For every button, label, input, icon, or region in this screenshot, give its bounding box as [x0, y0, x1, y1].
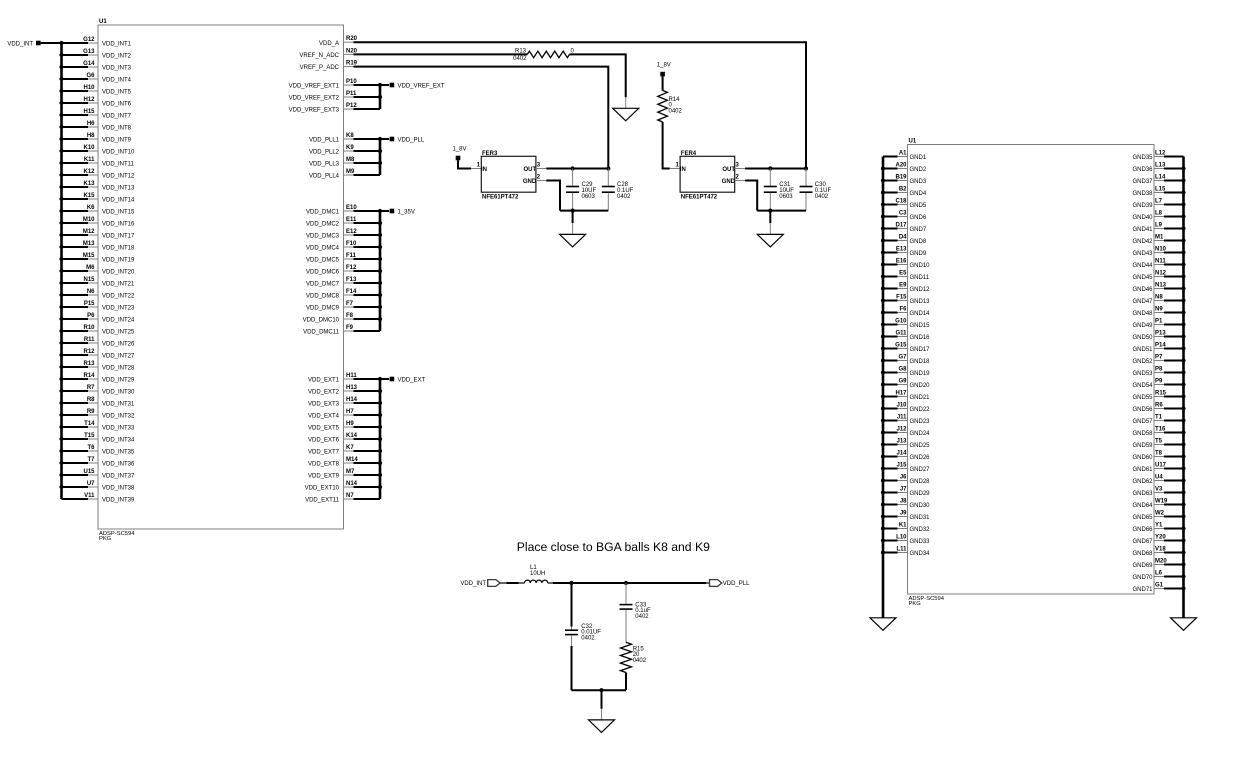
svg-text:VREF_P_ADC: VREF_P_ADC: [300, 65, 340, 71]
svg-text:VDD_INT4: VDD_INT4: [102, 78, 132, 84]
svg-text:P15: P15: [84, 301, 95, 307]
pin GND47 (N8) with wire and junction: [1132, 295, 1185, 306]
svg-text:U1: U1: [99, 19, 107, 25]
svg-text:NFE61PT472: NFE61PT472: [482, 195, 519, 201]
svg-text:VDD_INT17: VDD_INT17: [102, 234, 135, 240]
svg-text:M6: M6: [86, 265, 95, 271]
pin VDD_VREF_EXT3 (P12): [289, 103, 380, 114]
svg-text:GND33: GND33: [910, 539, 931, 545]
pin GND26 (J14) with wire and junction: [881, 451, 930, 462]
svg-text:VDD_INT13: VDD_INT13: [102, 186, 135, 192]
svg-text:K1: K1: [899, 523, 907, 529]
svg-text:GND25: GND25: [910, 443, 931, 449]
pin GND43 (N10) with wire and junction: [1132, 247, 1185, 258]
svg-text:VDD_INT35: VDD_INT35: [102, 450, 135, 456]
wire FER4 ground rail: [757, 209, 806, 213]
svg-text:W2: W2: [1155, 511, 1165, 517]
svg-text:H10: H10: [83, 85, 95, 91]
pin VDD_INT38 (U7) with wire and junction: [59, 481, 135, 492]
pin GND44 (N11) with wire and junction: [1132, 259, 1185, 270]
svg-text:H17: H17: [895, 391, 907, 397]
svg-text:OUT: OUT: [524, 167, 537, 173]
net VDD_INT flag: [7, 41, 40, 48]
svg-text:J13: J13: [896, 439, 907, 445]
svg-text:P12: P12: [346, 103, 357, 109]
svg-text:VDD_INT8: VDD_INT8: [102, 126, 132, 132]
svg-text:F12: F12: [346, 265, 357, 271]
svg-text:H15: H15: [83, 109, 95, 115]
svg-text:GND8: GND8: [910, 239, 927, 245]
svg-text:FER4: FER4: [681, 151, 697, 157]
svg-text:VDD_INT25: VDD_INT25: [102, 330, 135, 336]
svg-text:GND71: GND71: [1132, 587, 1153, 593]
pin VDD_PLL2 (K9): [309, 145, 380, 156]
svg-text:GND47: GND47: [1132, 299, 1153, 305]
svg-text:VDD_INT10: VDD_INT10: [102, 150, 135, 156]
svg-text:0603: 0603: [582, 194, 596, 200]
svg-text:1_8V: 1_8V: [657, 63, 671, 69]
pin GND59 (T5) with wire and junction: [1132, 439, 1185, 450]
pin VDD_PLL1 (K8): [309, 133, 380, 144]
svg-text:VDD_INT12: VDD_INT12: [102, 174, 135, 180]
svg-text:GND24: GND24: [910, 431, 931, 437]
ferrite bead FER3 (NFE61PT472): [477, 151, 541, 201]
svg-text:VDD_INT26: VDD_INT26: [102, 342, 135, 348]
wire FER4 OUT node: [735, 166, 808, 170]
svg-text:J15: J15: [896, 463, 907, 469]
svg-text:VDD_INT39: VDD_INT39: [102, 498, 135, 504]
pin VDD_INT10 (K10) with wire and junction: [59, 145, 135, 156]
svg-text:GND52: GND52: [1132, 359, 1153, 365]
pin VDD_INT30 (R7) with wire and junction: [59, 385, 135, 396]
svg-text:R8: R8: [87, 397, 95, 403]
svg-text:VDD_INT33: VDD_INT33: [102, 426, 135, 432]
svg-text:R11: R11: [84, 337, 95, 343]
svg-text:N6: N6: [87, 289, 95, 295]
pin GND29 (J7) with wire and junction: [881, 487, 930, 498]
svg-text:VDD_INT19: VDD_INT19: [102, 258, 135, 264]
svg-text:VDD_DMC2: VDD_DMC2: [306, 222, 340, 228]
svg-text:K14: K14: [346, 433, 358, 439]
svg-text:VDD_INT: VDD_INT: [460, 581, 486, 587]
pin VDD_INT18 (M13) with wire and junction: [59, 241, 135, 252]
wire ground rail (bottom filter): [572, 688, 627, 692]
svg-text:GND41: GND41: [1132, 227, 1153, 233]
svg-text:GND11: GND11: [910, 275, 930, 281]
svg-text:GND65: GND65: [1132, 515, 1153, 521]
svg-text:J6: J6: [900, 475, 907, 481]
svg-text:G10: G10: [895, 319, 907, 325]
svg-text:GND20: GND20: [910, 383, 931, 389]
svg-text:OUT: OUT: [722, 167, 735, 173]
pin VDD_EXT10 (N14): [305, 481, 380, 492]
pin VDD_INT34 (T15) with wire and junction: [59, 433, 135, 444]
pin GND68 (V18) with wire and junction: [1132, 547, 1185, 558]
svg-text:VDD_INT6: VDD_INT6: [102, 102, 132, 108]
svg-text:R13: R13: [83, 361, 95, 367]
svg-text:GND2: GND2: [910, 167, 927, 173]
pin VDD_INT20 (M6) with wire and junction: [59, 265, 135, 276]
bus to net 1_35V: [378, 209, 382, 331]
svg-text:T7: T7: [87, 457, 95, 463]
svg-text:J14: J14: [896, 451, 907, 457]
pin VDD_INT5 (H10) with wire and junction: [59, 85, 131, 96]
svg-text:GND31: GND31: [910, 515, 931, 521]
svg-text:L11: L11: [896, 547, 907, 553]
svg-text:T14: T14: [84, 421, 95, 427]
svg-text:N11: N11: [1155, 259, 1166, 265]
pin GND66 (Y1) with wire and junction: [1132, 523, 1185, 534]
wire 1_8V to FER3 IN: [458, 160, 481, 168]
svg-text:VDD_VREF_EXT: VDD_VREF_EXT: [398, 83, 445, 89]
pin GND23 (J11) with wire and junction: [881, 415, 930, 426]
svg-text:GND4: GND4: [910, 191, 927, 197]
svg-text:J7: J7: [900, 487, 907, 493]
ground (bottom filter): [589, 690, 615, 732]
pin VDD_INT4 (G6) with wire and junction: [59, 73, 131, 84]
pin VDD_INT19 (M15) with wire and junction: [59, 253, 135, 264]
pin GND33 (L10) with wire and junction: [881, 535, 930, 546]
svg-text:L8: L8: [1155, 211, 1163, 217]
pin VDD_EXT11 (N7): [305, 493, 380, 504]
svg-text:GND14: GND14: [910, 311, 931, 317]
pin GND57 (T1) with wire and junction: [1132, 415, 1185, 426]
svg-text:1_8V: 1_8V: [453, 147, 467, 153]
svg-text:VDD_VREF_EXT1: VDD_VREF_EXT1: [289, 84, 340, 90]
svg-text:M8: M8: [346, 157, 355, 163]
ground (right GND bus): [1171, 618, 1197, 631]
svg-text:0402: 0402: [581, 636, 595, 642]
pin VDD_INT11 (K11) with wire and junction: [59, 157, 134, 168]
pin GND3 (B19) with wire and junction: [881, 175, 927, 186]
power 1_8V supply (FER3 input): [453, 147, 467, 161]
resistor R15 (20 0402): [621, 642, 647, 672]
svg-text:GND58: GND58: [1132, 431, 1153, 437]
pin GND6 (C3) with wire and junction: [881, 211, 927, 222]
svg-text:VDD_INT: VDD_INT: [7, 41, 33, 47]
pin VDD_INT6 (H12) with wire and junction: [59, 97, 131, 108]
svg-text:N7: N7: [346, 493, 354, 499]
svg-text:GND: GND: [722, 179, 736, 185]
pin GND46 (N13) with wire and junction: [1132, 283, 1185, 294]
svg-text:N13: N13: [1155, 283, 1167, 289]
svg-text:F8: F8: [346, 313, 354, 319]
svg-text:PKG: PKG: [99, 536, 112, 542]
wire net VDD_A to FER4 output: [354, 42, 806, 168]
pin VDD_INT28 (R13) with wire and junction: [59, 361, 135, 372]
svg-text:VDD_INT2: VDD_INT2: [102, 54, 132, 60]
svg-text:0402: 0402: [513, 56, 527, 62]
svg-text:V18: V18: [1155, 547, 1166, 553]
pin GND69 (M20) with wire and junction: [1132, 559, 1185, 570]
svg-text:GND: GND: [523, 179, 537, 185]
svg-text:G12: G12: [83, 37, 95, 43]
pin GND71 (G1) with wire and junction: [1132, 583, 1185, 594]
svg-text:GND28: GND28: [910, 479, 931, 485]
svg-text:P10: P10: [346, 79, 357, 85]
svg-text:G9: G9: [898, 379, 907, 385]
svg-text:VDD_INT32: VDD_INT32: [102, 414, 135, 420]
svg-text:GND17: GND17: [910, 347, 931, 353]
pin VDD_INT16 (M10) with wire and junction: [59, 217, 135, 228]
svg-text:VDD_INT15: VDD_INT15: [102, 210, 135, 216]
svg-text:GND9: GND9: [910, 251, 927, 257]
svg-text:VDD_INT28: VDD_INT28: [102, 366, 135, 372]
pin VDD_INT9 (H8) with wire and junction: [59, 133, 131, 144]
svg-text:E13: E13: [896, 247, 907, 253]
pin GND4 (B2) with wire and junction: [881, 187, 927, 198]
pin VDD_INT2 (G13) with wire and junction: [59, 49, 131, 60]
pin VDD_INT22 (N6) with wire and junction: [59, 289, 135, 300]
wire L1 to port VDD_PLL with junctions: [548, 581, 710, 585]
wire FER3 GND to rail: [536, 181, 560, 211]
svg-text:K9: K9: [346, 145, 354, 151]
svg-text:VDD_PLL: VDD_PLL: [723, 581, 750, 587]
svg-text:VDD_EXT2: VDD_EXT2: [308, 390, 340, 396]
svg-text:G13: G13: [83, 49, 95, 55]
svg-text:GND10: GND10: [910, 263, 931, 269]
svg-text:VDD_DMC10: VDD_DMC10: [303, 318, 340, 324]
svg-text:VDD_DMC6: VDD_DMC6: [306, 270, 340, 276]
svg-text:C18: C18: [895, 199, 907, 205]
svg-text:GND55: GND55: [1132, 395, 1153, 401]
svg-text:H8: H8: [87, 133, 95, 139]
pin GND2 (A20) with wire and junction: [881, 163, 927, 174]
svg-text:VDD_INT3: VDD_INT3: [102, 66, 132, 72]
svg-text:R15: R15: [1155, 391, 1167, 397]
svg-text:H12: H12: [83, 97, 95, 103]
svg-text:J11: J11: [897, 415, 907, 421]
pin VDD_INT3 (G14) with wire and junction: [59, 61, 131, 72]
svg-text:P13: P13: [1155, 331, 1166, 337]
pin VDD_INT39 (V11) with wire and junction: [62, 493, 136, 504]
svg-text:K11: K11: [84, 157, 95, 163]
svg-text:M1: M1: [1155, 235, 1164, 241]
svg-text:VDD_DMC5: VDD_DMC5: [306, 258, 340, 264]
pin GND32 (K1) with wire and junction: [881, 523, 930, 534]
svg-text:P8: P8: [1155, 367, 1163, 373]
svg-text:K13: K13: [83, 181, 95, 187]
capacitor C31 (10UF 0603): [764, 169, 795, 211]
svg-text:VDD_EXT9: VDD_EXT9: [308, 474, 340, 480]
pin VDD_INT29 (R14) with wire and junction: [59, 373, 135, 384]
bus to net VDD_VREF_EXT: [378, 83, 382, 109]
svg-text:F14: F14: [346, 289, 357, 295]
pin VDD_DMC7 (F13): [306, 277, 380, 288]
svg-text:D17: D17: [895, 223, 907, 229]
pin GND64 (W19) with wire and junction: [1132, 499, 1185, 510]
svg-text:N15: N15: [83, 277, 95, 283]
svg-text:GND21: GND21: [910, 395, 931, 401]
svg-text:VDD_VREF_EXT3: VDD_VREF_EXT3: [289, 108, 340, 114]
pin VDD_DMC4 (F10): [306, 241, 380, 252]
svg-text:GND27: GND27: [910, 467, 931, 473]
svg-text:M12: M12: [83, 229, 95, 235]
svg-text:P9: P9: [1155, 379, 1163, 385]
svg-text:T1: T1: [1155, 415, 1163, 421]
svg-text:GND5: GND5: [910, 203, 927, 209]
pin GND8 (D4) with wire and junction: [881, 235, 927, 246]
pin GND20 (G9) with wire and junction: [881, 379, 930, 390]
wire R14 to FER4 IN: [663, 122, 681, 169]
svg-text:N12: N12: [1155, 271, 1167, 277]
pin GND27 (J15) with wire and junction: [881, 463, 930, 474]
bus VDD_INT (left pin bus): [60, 42, 63, 499]
pin GND10 (E16) with wire and junction: [881, 259, 930, 270]
svg-text:GND12: GND12: [910, 287, 931, 293]
svg-text:L15: L15: [1155, 187, 1166, 193]
pin VREF_N_ADC (N20): [299, 48, 357, 59]
svg-text:VDD_INT34: VDD_INT34: [102, 438, 135, 444]
svg-text:VDD_DMC1: VDD_DMC1: [306, 210, 340, 216]
svg-text:VDD_INT37: VDD_INT37: [102, 474, 135, 480]
port VDD_INT (input): [460, 580, 500, 588]
pin GND67 (Y20) with wire and junction: [1132, 535, 1185, 546]
svg-text:U17: U17: [1155, 463, 1167, 469]
pin GND52 (P7) with wire and junction: [1132, 355, 1185, 366]
bus GND (left side) to ground: [882, 157, 885, 618]
pin VDD_INT31 (R8) with wire and junction: [59, 397, 135, 408]
svg-text:H11: H11: [346, 373, 357, 379]
svg-text:M13: M13: [83, 241, 95, 247]
svg-text:L1: L1: [530, 565, 537, 571]
svg-text:N9: N9: [1155, 307, 1163, 313]
svg-text:VDD_INT16: VDD_INT16: [102, 222, 135, 228]
pin VDD_INT33 (T14) with wire and junction: [59, 421, 135, 432]
svg-text:VDD_PLL: VDD_PLL: [398, 137, 425, 143]
pin GND42 (M1) with wire and junction: [1132, 235, 1185, 246]
svg-text:T6: T6: [87, 445, 95, 451]
pin GND30 (J8) with wire and junction: [881, 499, 930, 510]
wire port to L1: [500, 582, 525, 584]
svg-text:GND7: GND7: [910, 227, 927, 233]
pin GND35 (L12) with wire and junction: [1132, 151, 1183, 162]
pin GND28 (J6) with wire and junction: [881, 475, 930, 486]
wire 1_8V to R14: [662, 76, 664, 90]
pin VDD_INT24 (P6) with wire and junction: [59, 313, 135, 324]
svg-text:VDD_DMC7: VDD_DMC7: [306, 282, 340, 288]
svg-text:GND63: GND63: [1132, 491, 1153, 497]
svg-text:VDD_PLL1: VDD_PLL1: [309, 138, 340, 144]
capacitor C33 (0.1uF 0402): [620, 583, 651, 642]
pin GND55 (R15) with wire and junction: [1132, 391, 1185, 402]
svg-text:VDD_EXT3: VDD_EXT3: [308, 402, 340, 408]
svg-text:M10: M10: [83, 217, 95, 223]
svg-text:L7: L7: [1155, 199, 1163, 205]
pin GND17 (G15) with wire and junction: [881, 343, 930, 354]
svg-text:GND1: GND1: [910, 155, 927, 161]
svg-text:GND59: GND59: [1132, 443, 1153, 449]
svg-text:GND38: GND38: [1132, 191, 1153, 197]
svg-text:A1: A1: [899, 151, 907, 157]
svg-text:H6: H6: [87, 121, 95, 127]
svg-text:R9: R9: [87, 409, 95, 415]
svg-text:K15: K15: [83, 193, 95, 199]
svg-text:GND35: GND35: [1132, 155, 1153, 161]
pin GND34 (L11) with wire and junction: [881, 547, 930, 558]
pin GND38 (L15) with wire and junction: [1132, 187, 1185, 198]
pin GND60 (T8) with wire and junction: [1132, 451, 1185, 462]
svg-text:VDD_INT31: VDD_INT31: [102, 402, 135, 408]
resistor R14 (0, 0402): [658, 90, 683, 122]
pin GND1 (A1) with wire and junction: [883, 151, 927, 162]
pin GND62 (U4) with wire and junction: [1132, 475, 1185, 486]
wire FER3 OUT node: [536, 166, 611, 170]
svg-text:VDD_INT30: VDD_INT30: [102, 390, 135, 396]
svg-text:F7: F7: [346, 301, 354, 307]
svg-text:NFE61PT472: NFE61PT472: [681, 195, 718, 201]
IC U1 body (ADSP-SC594 PKG, ground pins): [908, 139, 1155, 608]
svg-text:GND60: GND60: [1132, 455, 1153, 461]
svg-text:N8: N8: [1155, 295, 1163, 301]
pin VDD_DMC1 (E10): [306, 205, 380, 216]
svg-text:M14: M14: [346, 457, 358, 463]
pin GND15 (G10) with wire and junction: [881, 319, 930, 330]
pin GND5 (C18) with wire and junction: [881, 199, 927, 210]
svg-text:N14: N14: [346, 481, 358, 487]
svg-text:VDD_INT5: VDD_INT5: [102, 90, 132, 96]
pin GND9 (E13) with wire and junction: [881, 247, 927, 258]
svg-text:W19: W19: [1155, 499, 1168, 505]
pin VDD_EXT3 (H14): [308, 397, 380, 408]
pin VDD_DMC2 (E11): [306, 217, 380, 228]
svg-text:GND67: GND67: [1132, 539, 1153, 545]
pin VDD_VREF_EXT1 (P10): [289, 79, 380, 90]
ferrite bead FER4 (NFE61PT472): [676, 151, 740, 201]
svg-text:GND37: GND37: [1132, 179, 1153, 185]
svg-text:VREF_N_ADC: VREF_N_ADC: [299, 53, 339, 59]
pin VDD_INT23 (P15) with wire and junction: [59, 301, 135, 312]
pin GND63 (V3) with wire and junction: [1132, 487, 1185, 498]
pin VDD_DMC5 (F11): [306, 253, 380, 264]
pin GND41 (L9) with wire and junction: [1132, 223, 1185, 234]
pin GND36 (L13) with wire and junction: [1132, 163, 1185, 174]
svg-text:L14: L14: [1155, 175, 1166, 181]
svg-text:J12: J12: [896, 427, 907, 433]
svg-text:GND40: GND40: [1132, 215, 1153, 221]
svg-text:GND3: GND3: [910, 179, 927, 185]
svg-text:VDD_DMC3: VDD_DMC3: [306, 234, 340, 240]
pin VDD_EXT4 (H7): [308, 409, 380, 420]
svg-text:GND66: GND66: [1132, 527, 1153, 533]
svg-text:VDD_EXT8: VDD_EXT8: [308, 462, 340, 468]
wire FER4 GND to rail: [735, 181, 758, 211]
svg-text:VDD_A: VDD_A: [319, 41, 339, 47]
pin GND58 (T16) with wire and junction: [1132, 427, 1185, 438]
svg-text:G15: G15: [895, 343, 907, 349]
svg-text:E5: E5: [899, 271, 907, 277]
svg-text:VDD_INT9: VDD_INT9: [102, 138, 132, 144]
pin VDD_DMC9 (F7): [306, 301, 380, 312]
svg-text:GND62: GND62: [1132, 479, 1153, 485]
pin VDD_PLL3 (M8): [309, 157, 380, 168]
svg-text:V11: V11: [84, 493, 95, 499]
svg-text:GND23: GND23: [910, 419, 931, 425]
net 1_35V flag: [380, 209, 415, 216]
bus to net VDD_EXT: [378, 377, 382, 499]
svg-text:GND19: GND19: [910, 371, 931, 377]
svg-text:E11: E11: [346, 217, 357, 223]
svg-text:M7: M7: [346, 469, 355, 475]
resistor R13 (0, 0402): [513, 49, 574, 62]
svg-text:GND57: GND57: [1132, 419, 1153, 425]
svg-text:IN: IN: [481, 167, 487, 173]
svg-text:0402: 0402: [815, 194, 829, 200]
svg-text:IN: IN: [680, 167, 686, 173]
svg-text:VDD_INT27: VDD_INT27: [102, 354, 135, 360]
pin VREF_P_ADC (R19): [300, 61, 358, 72]
pin GND13 (F15) with wire and junction: [881, 295, 930, 306]
